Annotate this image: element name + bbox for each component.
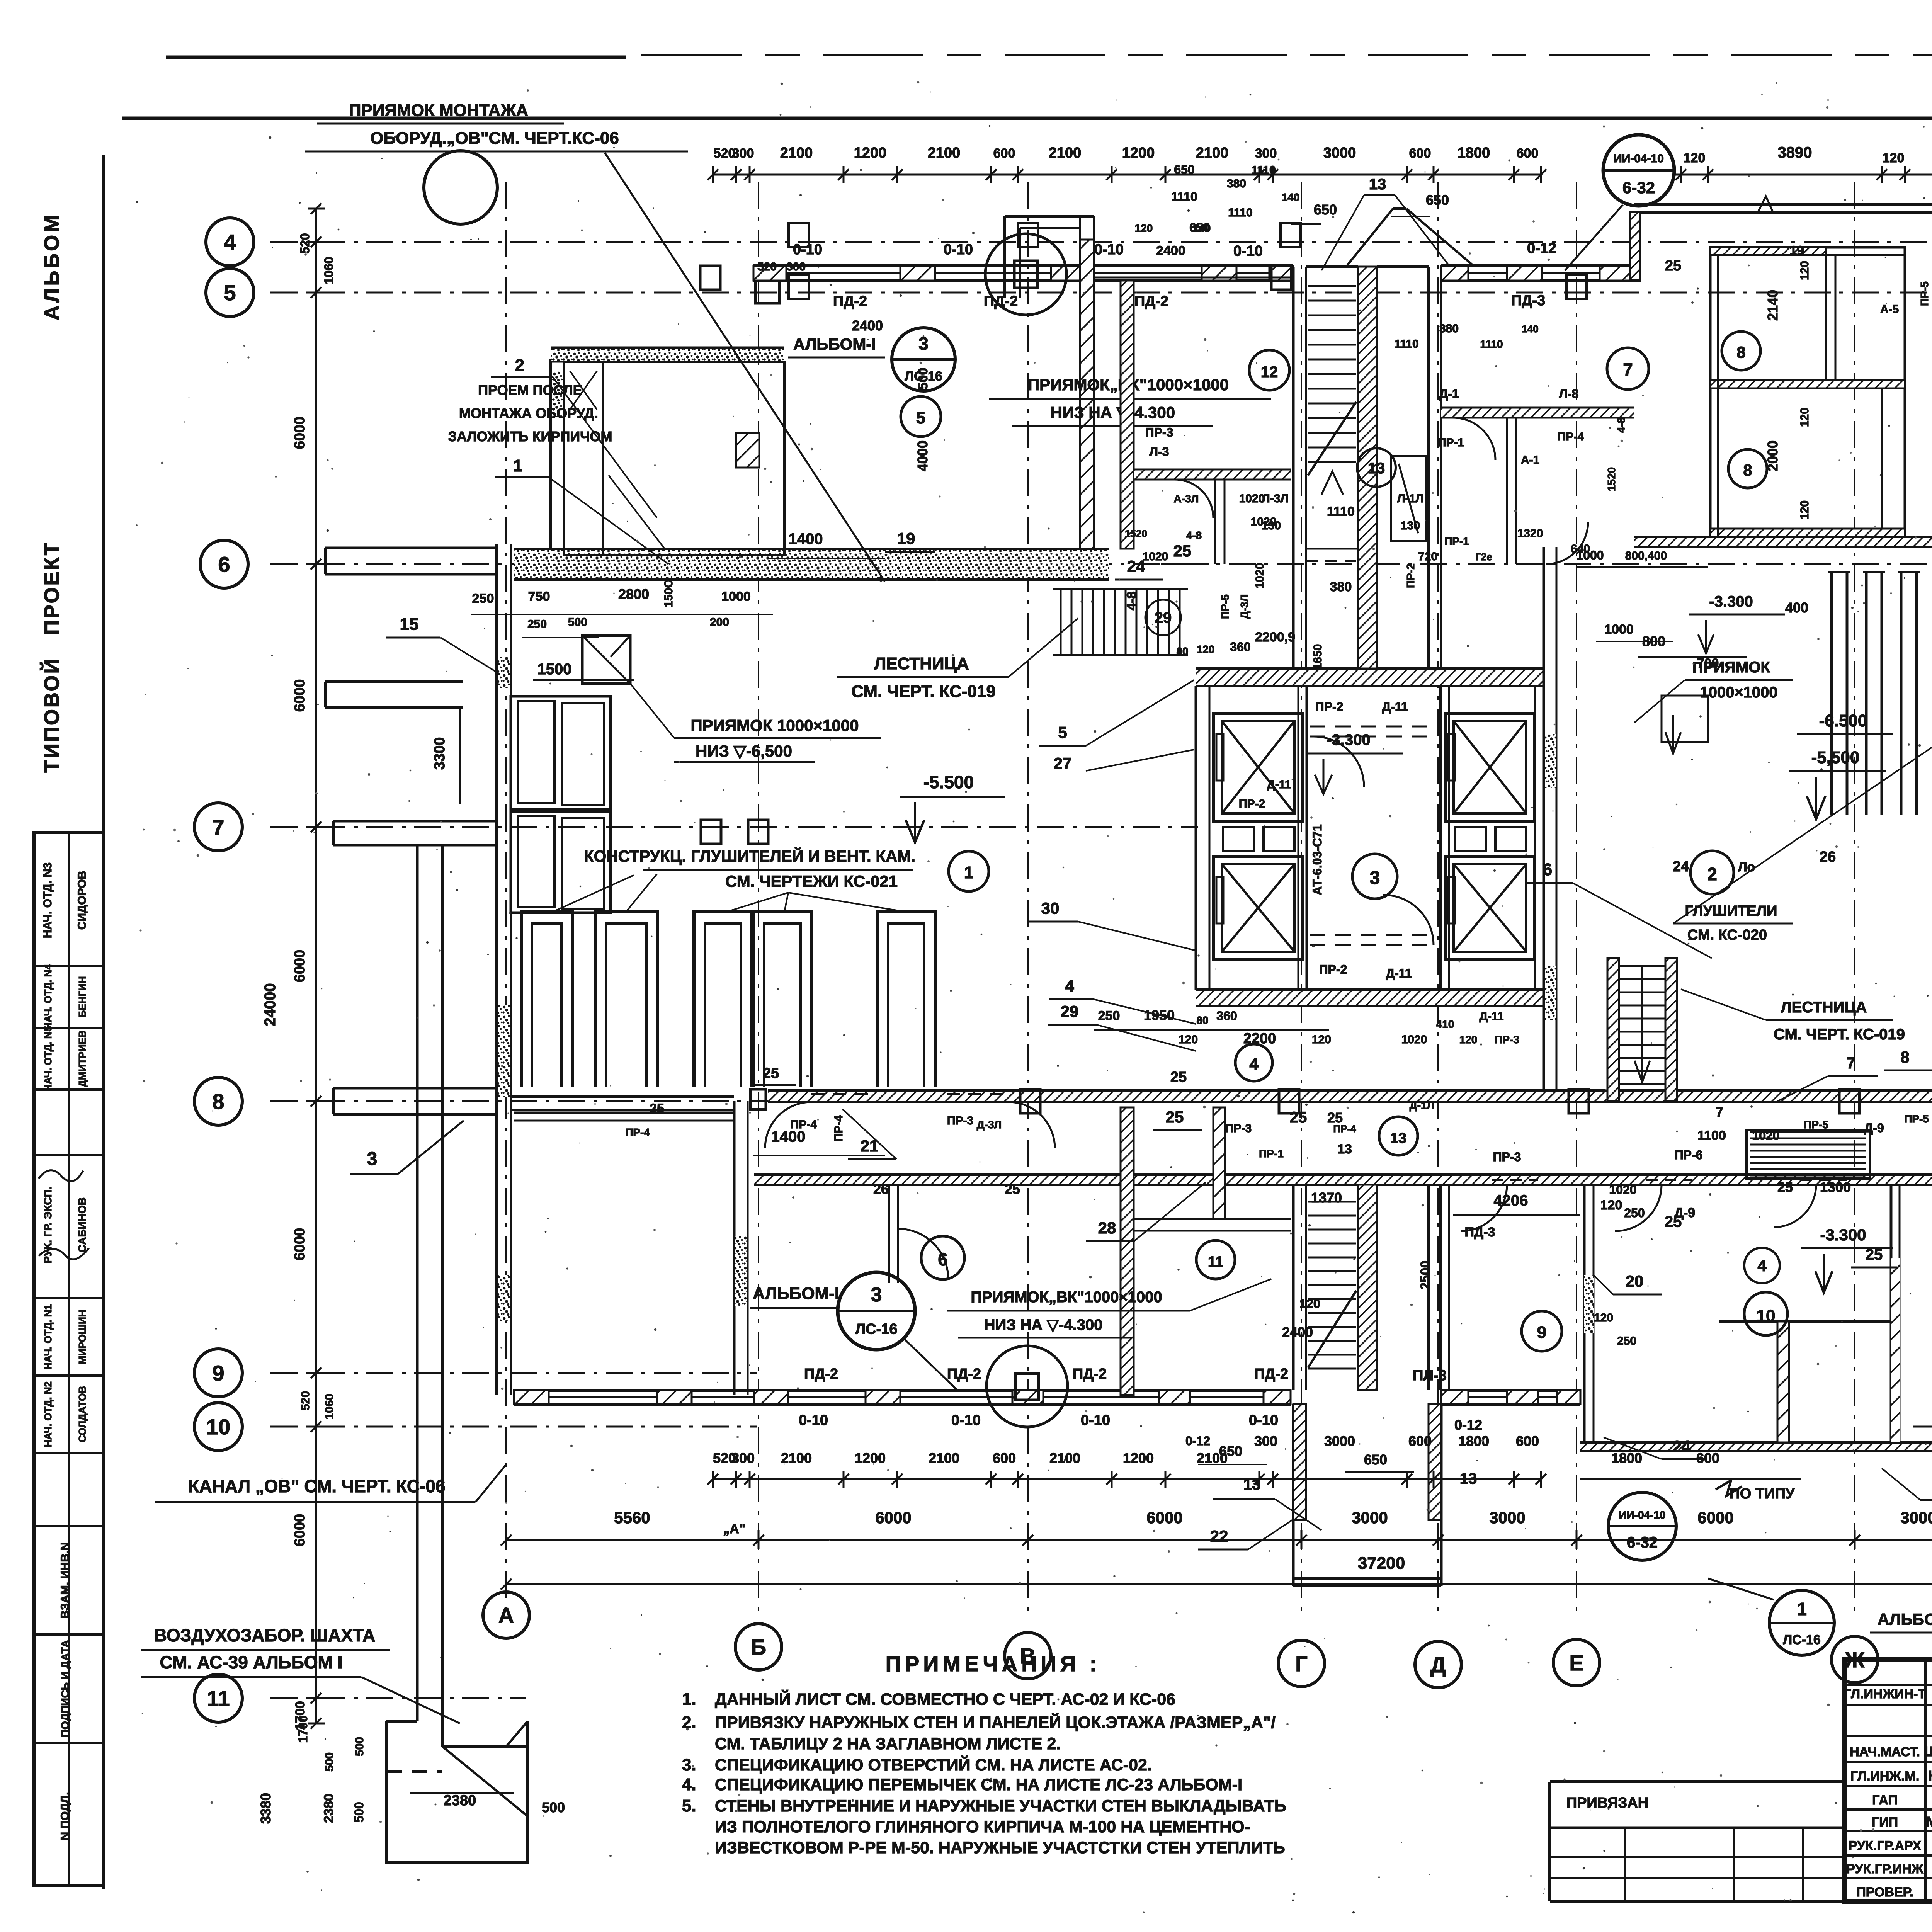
vertical axis dash-dot lines	[505, 182, 507, 1619]
room7 circle	[1607, 348, 1649, 389]
svg-text:6000: 6000	[292, 950, 308, 983]
svg-text:Ло: Ло	[1738, 860, 1755, 874]
svg-text:25: 25	[1005, 1181, 1020, 1197]
svg-text:ЛЕСТНИЦА: ЛЕСТНИЦА	[1781, 999, 1867, 1016]
south wall right block	[1580, 1442, 1932, 1451]
svg-text:4.: 4.	[682, 1775, 696, 1794]
corridor south wall	[754, 1175, 1894, 1185]
room 9 left wall	[1439, 1185, 1442, 1390]
heavy dark band axis6	[514, 549, 1109, 580]
svg-text:Е: Е	[1569, 1651, 1583, 1675]
room5 west wall	[1121, 281, 1134, 549]
upper band horizontal wall right	[1441, 408, 1634, 418]
svg-text:250: 250	[1624, 1206, 1645, 1220]
svg-text:СМ. АС-39 АЛЬБОМ I: СМ. АС-39 АЛЬБОМ I	[160, 1652, 343, 1672]
svg-text:120: 120	[1197, 643, 1215, 655]
svg-text:Д-1Л: Д-1Л	[1410, 1099, 1435, 1111]
svg-text:6000: 6000	[292, 417, 308, 449]
elevator shaft wall mid-right	[1439, 686, 1442, 990]
svg-text:8: 8	[1743, 461, 1752, 479]
svg-text:0-10: 0-10	[951, 1412, 981, 1429]
upper protrusion top wall	[1094, 264, 1293, 267]
svg-text:6000: 6000	[292, 679, 308, 712]
svg-text:3000: 3000	[1900, 1509, 1932, 1527]
svg-text:600: 600	[1408, 1433, 1432, 1449]
svg-text:2100: 2100	[781, 1450, 812, 1466]
svg-text:1520: 1520	[1125, 528, 1147, 539]
svg-text:200: 200	[710, 616, 729, 629]
svg-text:400: 400	[1785, 600, 1808, 616]
svg-text:1.: 1.	[682, 1690, 696, 1709]
svg-text:120: 120	[1179, 1033, 1198, 1046]
svg-text:РУК.ГР.ИНЖ: РУК.ГР.ИНЖ	[1846, 1862, 1923, 1876]
svg-text:120: 120	[1684, 151, 1706, 165]
upper band vertical wall x3900	[1506, 418, 1508, 564]
leaders to mufflers	[553, 875, 634, 912]
svg-text:ГАП: ГАП	[1872, 1793, 1898, 1808]
svg-text:1020: 1020	[1143, 550, 1168, 563]
svg-text:24: 24	[1673, 859, 1689, 875]
svg-text:120: 120	[1600, 1198, 1622, 1213]
svg-text:12: 12	[1261, 364, 1278, 381]
svg-text:1200: 1200	[855, 1450, 886, 1466]
svg-text:2400: 2400	[1156, 243, 1185, 258]
svg-text:650: 650	[1426, 192, 1449, 208]
svg-text:120: 120	[1299, 1297, 1320, 1311]
svg-text:24: 24	[1673, 1437, 1691, 1456]
svg-text:4-8: 4-8	[1124, 591, 1139, 610]
room13 circle lower	[1379, 1117, 1418, 1155]
svg-text:„А": „А"	[723, 1522, 745, 1536]
room16 north wall	[514, 1112, 734, 1114]
svg-text:1110: 1110	[1394, 338, 1418, 350]
svg-text:1020: 1020	[1401, 1033, 1427, 1046]
svg-text:ПР-5: ПР-5	[1904, 1113, 1929, 1125]
title block name row lines	[1844, 1684, 1932, 1686]
step wall between center and right wing	[1630, 212, 1640, 281]
core bottom hatched band	[1196, 990, 1544, 1006]
appendage east wall hatched	[1080, 240, 1094, 549]
svg-text:2: 2	[1707, 864, 1717, 884]
top dimension chain	[713, 174, 1541, 176]
svg-text:1700: 1700	[296, 1715, 310, 1743]
svg-text:520: 520	[299, 1391, 312, 1410]
svg-text:2100: 2100	[1049, 1450, 1080, 1466]
room1 muffler boxes	[521, 912, 572, 1087]
svg-text:7: 7	[1846, 1054, 1855, 1072]
svg-text:27: 27	[1054, 754, 1072, 772]
svg-text:1110: 1110	[1171, 190, 1197, 204]
svg-text:11: 11	[207, 1686, 230, 1711]
svg-text:ПД-2: ПД-2	[1134, 293, 1168, 310]
svg-text:СПЕЦИФИКАЦИЮ ПЕРЕМЫЧЕК СМ. Н: СПЕЦИФИКАЦИЮ ПЕРЕМЫЧЕК СМ. НА ЛИСТЕ ЛС-2…	[715, 1776, 1242, 1794]
shaft side slots	[1216, 734, 1223, 781]
svg-text:ПРИЯМОК МОНТАЖА: ПРИЯМОК МОНТАЖА	[349, 101, 528, 120]
elevator shaft C	[1445, 713, 1535, 821]
svg-text:600: 600	[1516, 1433, 1539, 1449]
shaft machine boxes	[1223, 827, 1254, 851]
room 10 right wall	[1890, 1185, 1893, 1442]
svg-text:6-32: 6-32	[1622, 179, 1655, 197]
svg-text:250: 250	[527, 618, 547, 631]
svg-text:ГЛ.ИНЖ.М.: ГЛ.ИНЖ.М.	[1850, 1769, 1920, 1784]
appendage inner box	[564, 362, 784, 555]
rooms8 box walls	[1710, 247, 1905, 537]
svg-text:НАЧ. ОТД. N5: НАЧ. ОТД. N5	[42, 1026, 54, 1092]
svg-text:СМ. ЧЕРТЕЖИ КС-021: СМ. ЧЕРТЕЖИ КС-021	[725, 872, 898, 890]
upper band door arcs right	[1453, 418, 1495, 460]
svg-text:ЛС-16: ЛС-16	[905, 369, 942, 384]
room2 west wall	[1543, 547, 1545, 1090]
elevator shaft A	[1213, 713, 1303, 821]
svg-text:3380: 3380	[258, 1793, 274, 1824]
upper band vertical wall left	[1214, 480, 1216, 564]
svg-text:НАЧ. ОТД. N4: НАЧ. ОТД. N4	[42, 964, 54, 1029]
north wall right of stair	[1441, 264, 1634, 267]
svg-text:-3.300: -3.300	[1709, 593, 1753, 610]
svg-text:25: 25	[1777, 1179, 1793, 1195]
svg-text:1650: 1650	[1311, 644, 1324, 670]
svg-text:1110: 1110	[1480, 338, 1503, 350]
svg-text:120: 120	[1883, 151, 1905, 165]
svg-text:1800: 1800	[1611, 1450, 1642, 1466]
svg-text:1000×1000: 1000×1000	[1700, 684, 1777, 701]
svg-text:ЛЕСТНИЦА: ЛЕСТНИЦА	[874, 654, 969, 673]
svg-text:7: 7	[1716, 1104, 1723, 1120]
svg-text:500: 500	[352, 1802, 366, 1822]
top right dimension chain	[1673, 174, 1932, 176]
svg-text:Л-1Л: Л-1Л	[1397, 492, 1424, 505]
svg-text:ИИ-04-10: ИИ-04-10	[1619, 1509, 1665, 1521]
bottom axis letter circles	[483, 1592, 529, 1638]
svg-text:ПРОВЕР.: ПРОВЕР.	[1856, 1885, 1913, 1900]
svg-text:1100: 1100	[1697, 1128, 1726, 1143]
elevator shaft wall right	[1543, 686, 1545, 990]
svg-text:750: 750	[528, 589, 550, 604]
svg-text:2100: 2100	[1197, 1450, 1228, 1466]
room12 circle	[1249, 350, 1289, 390]
svg-text:Д-9: Д-9	[1674, 1206, 1695, 1220]
svg-text:ПД-3: ПД-3	[1511, 293, 1545, 309]
svg-text:650: 650	[1364, 1452, 1387, 1468]
svg-text:2380: 2380	[321, 1794, 336, 1823]
svg-text:4: 4	[1065, 977, 1074, 995]
sidebar stamp table grid	[34, 833, 104, 1886]
svg-text:300: 300	[732, 146, 754, 161]
svg-text:КОНСТРУКЦ. ГЛУШИТЕЛЕЙ И ВЕНТ: КОНСТРУКЦ. ГЛУШИТЕЛЕЙ И ВЕНТ. КАМ.	[584, 847, 915, 865]
south wall column detail circle	[986, 1346, 1068, 1427]
svg-text:520: 520	[298, 233, 312, 253]
svg-text:5.: 5.	[682, 1796, 696, 1815]
svg-text:Д-3Л: Д-3Л	[1238, 594, 1250, 619]
svg-text:7: 7	[212, 815, 224, 839]
svg-text:СПЕЦИФИКАЦИЮ ОТВЕРСТИЙ СМ.: СПЕЦИФИКАЦИЮ ОТВЕРСТИЙ СМ. НА ЛИСТЕ АС-0…	[715, 1755, 1152, 1774]
svg-text:НАЧ. ОТД. N1: НАЧ. ОТД. N1	[42, 1304, 54, 1370]
svg-text:0-10: 0-10	[1081, 1412, 1110, 1429]
svg-text:НАЧ. ОТД. N2: НАЧ. ОТД. N2	[42, 1381, 54, 1447]
svg-text:ПР-5: ПР-5	[1918, 281, 1930, 306]
core corridor door dashes top	[1310, 726, 1437, 728]
svg-text:N ПОДЛ.: N ПОДЛ.	[59, 1792, 71, 1840]
core top hatched band	[1196, 668, 1544, 686]
circle 4 lower lobby	[1235, 1044, 1272, 1081]
svg-text:1060: 1060	[323, 1394, 336, 1420]
room16 inner wall	[888, 1185, 890, 1283]
west wall lower-left block	[733, 1101, 736, 1395]
svg-text:СОЛДАТОВ: СОЛДАТОВ	[77, 1386, 88, 1442]
svg-text:26: 26	[1820, 849, 1836, 865]
svg-text:2100: 2100	[929, 1450, 959, 1466]
svg-text:АЛЬБОМ: АЛЬБОМ	[40, 213, 63, 320]
svg-text:ПОДПИСЬ И ДАТА: ПОДПИСЬ И ДАТА	[59, 1640, 71, 1737]
left sidebar frame line	[102, 155, 105, 1889]
svg-text:1200: 1200	[1123, 1450, 1154, 1466]
svg-text:3300: 3300	[432, 737, 448, 770]
svg-text:120: 120	[1798, 500, 1811, 520]
bottom small chain right	[1580, 1478, 1801, 1480]
axis7 left protruding bar	[333, 820, 495, 823]
svg-text:3000: 3000	[1352, 1509, 1388, 1527]
scan speckle noise	[1305, 1104, 1308, 1106]
svg-text:КРИЧЕВСКИЦ: КРИЧЕВСКИЦ	[1928, 1768, 1932, 1784]
svg-text:24000: 24000	[262, 983, 279, 1026]
svg-text:6000: 6000	[1146, 1509, 1182, 1527]
svg-text:6: 6	[218, 552, 230, 577]
svg-text:1110: 1110	[1251, 164, 1276, 177]
svg-text:6-32: 6-32	[1627, 1534, 1658, 1551]
svg-text:-5,500: -5,500	[1811, 748, 1860, 767]
svg-text:2100: 2100	[780, 145, 813, 161]
south window band right part	[1441, 1389, 1580, 1392]
svg-text:ПР-3: ПР-3	[1145, 425, 1173, 439]
svg-text:ПРИЯМОК„ВК"1000×1000: ПРИЯМОК„ВК"1000×1000	[971, 1289, 1162, 1306]
core circle 3	[1352, 854, 1397, 899]
svg-text:НИЗ НА ▽-4.300: НИЗ НА ▽-4.300	[984, 1316, 1103, 1333]
svg-text:Л-3: Л-3	[1150, 445, 1169, 459]
svg-text:13: 13	[1369, 176, 1386, 193]
svg-text:1020: 1020	[1251, 515, 1277, 528]
svg-text:ПР-2: ПР-2	[1239, 798, 1265, 810]
left axis circles 4-11	[206, 218, 254, 266]
south bay under stair	[1292, 1404, 1295, 1586]
svg-text:28: 28	[1098, 1219, 1116, 1237]
right wing north wall	[1634, 203, 1932, 206]
svg-text:4: 4	[224, 230, 236, 254]
svg-text:4-8: 4-8	[1186, 529, 1202, 541]
svg-text:520: 520	[757, 260, 777, 273]
sidebar signatures	[39, 1170, 83, 1181]
svg-text:3890: 3890	[1778, 144, 1812, 161]
dashed lintels rooms 9-10	[1492, 1179, 1538, 1181]
svg-text:0-12: 0-12	[1527, 240, 1556, 257]
svg-text:ПР-4: ПР-4	[791, 1118, 817, 1131]
svg-text:8: 8	[212, 1089, 224, 1114]
svg-text:МИРОШИН: МИРОШИН	[77, 1310, 88, 1364]
rooms8 inner door lines	[1825, 255, 1827, 380]
svg-text:2100: 2100	[1196, 145, 1229, 161]
svg-text:0-10: 0-10	[944, 241, 973, 258]
svg-text:360: 360	[1216, 1009, 1237, 1023]
svg-text:13: 13	[1390, 1130, 1406, 1146]
room5 circle	[901, 396, 941, 437]
svg-text:Л-3Л: Л-3Л	[1262, 492, 1289, 505]
shaft channel vertical lines	[416, 846, 419, 1721]
svg-text:25: 25	[763, 1065, 779, 1082]
room9 circle	[1522, 1311, 1562, 1351]
svg-text:25: 25	[1173, 542, 1192, 560]
svg-text:25: 25	[1290, 1109, 1307, 1126]
svg-text:ИЗ ПОЛНОТЕЛОГО ГЛИНЯНОГО КИР: ИЗ ПОЛНОТЕЛОГО ГЛИНЯНОГО КИРПИЧА М-100 Н…	[715, 1818, 1250, 1836]
rooms 9-10 divider	[1583, 1185, 1586, 1442]
svg-text:-5.500: -5.500	[923, 772, 974, 792]
svg-text:ПРИЯМОК 1000×1000: ПРИЯМОК 1000×1000	[691, 716, 859, 735]
svg-text:СИДОРОВ: СИДОРОВ	[76, 871, 88, 930]
room1 circle 1	[949, 851, 989, 891]
svg-text:500: 500	[568, 616, 587, 629]
svg-text:2100: 2100	[1049, 145, 1082, 161]
svg-text:120: 120	[1798, 408, 1811, 427]
svg-text:ПРИВЯЗАН: ПРИВЯЗАН	[1566, 1795, 1648, 1811]
svg-text:25: 25	[1170, 1069, 1187, 1085]
elevator shaft D	[1445, 856, 1535, 959]
svg-text:2400: 2400	[852, 318, 883, 333]
svg-text:1800: 1800	[1458, 145, 1490, 161]
west wall left wing	[495, 544, 498, 1395]
svg-text:9: 9	[1537, 1323, 1546, 1342]
svg-text:6000: 6000	[875, 1509, 911, 1527]
svg-text:20: 20	[1626, 1272, 1644, 1290]
svg-text:25: 25	[650, 1101, 664, 1116]
page top broken trim line	[166, 56, 626, 59]
svg-text:720: 720	[1418, 550, 1437, 563]
svg-text:120: 120	[1459, 1034, 1478, 1046]
svg-text:1520: 1520	[1605, 467, 1617, 491]
svg-text:СМ. ЧЕРТ. КС-019: СМ. ЧЕРТ. КС-019	[1774, 1026, 1905, 1043]
svg-text:19: 19	[897, 529, 915, 548]
svg-text:ПД-2: ПД-2	[1254, 1366, 1288, 1382]
svg-text:1: 1	[964, 863, 973, 882]
svg-text:ПР-5: ПР-5	[1804, 1119, 1828, 1131]
svg-text:1: 1	[513, 456, 522, 475]
stair mid landing lines	[1306, 548, 1358, 550]
svg-text:1200: 1200	[1122, 145, 1155, 161]
privyazan box	[1550, 1780, 1844, 1783]
svg-text:-3.300: -3.300	[1820, 1226, 1866, 1244]
detail circle top left x1260	[424, 151, 497, 224]
axis7 columns	[701, 820, 721, 844]
south window band lower-center	[514, 1389, 1291, 1392]
room2 muffler bars	[1832, 572, 1847, 815]
svg-text:ПР-2: ПР-2	[1315, 700, 1344, 714]
svg-text:ЛС-16: ЛС-16	[855, 1321, 897, 1337]
svg-text:А-5: А-5	[1880, 303, 1899, 316]
svg-text:640: 640	[1571, 543, 1590, 555]
svg-text:Д-11: Д-11	[1479, 1010, 1503, 1023]
svg-text:Г2е: Г2е	[1475, 551, 1492, 563]
svg-text:ПР-5: ПР-5	[1219, 594, 1231, 619]
svg-text:8: 8	[1736, 343, 1745, 361]
right stair walls	[1607, 958, 1619, 1101]
stair tower lower treads	[1308, 1201, 1356, 1203]
svg-text:-6.500: -6.500	[1819, 711, 1867, 730]
svg-text:5560: 5560	[614, 1509, 650, 1527]
svg-text:120: 120	[1594, 1311, 1613, 1324]
shaft outline	[386, 1721, 527, 1862]
svg-text:Д-3Л: Д-3Л	[977, 1119, 1002, 1131]
horizontal axis dash-dot lines	[270, 241, 1932, 243]
title block outer	[1844, 1659, 1932, 1901]
svg-text:26: 26	[873, 1181, 889, 1197]
core door arcs	[1314, 736, 1364, 787]
svg-text:ПР-6: ПР-6	[1675, 1148, 1703, 1162]
corridor door arcs left	[765, 1102, 811, 1148]
svg-text:3: 3	[1370, 868, 1380, 888]
svg-text:300: 300	[786, 260, 806, 273]
svg-text:0-10: 0-10	[1249, 1412, 1278, 1429]
svg-text:ДАННЫЙ ЛИСТ СМ. СОВМЕСТНО С: ДАННЫЙ ЛИСТ СМ. СОВМЕСТНО С ЧЕРТ. АС-02 …	[715, 1690, 1175, 1709]
svg-text:3: 3	[367, 1149, 378, 1169]
svg-text:3.: 3.	[682, 1755, 696, 1774]
svg-text:ПР-3: ПР-3	[947, 1114, 973, 1127]
rooms9-10 door arcs	[1461, 1185, 1507, 1231]
svg-text:КАНАЛ „ОВ" СМ. ЧЕРТ. КС-06: КАНАЛ „ОВ" СМ. ЧЕРТ. КС-06	[188, 1476, 445, 1496]
room2 circle	[1690, 851, 1734, 894]
svg-text:300: 300	[1254, 1433, 1277, 1449]
svg-text:АТ-6.03-С71: АТ-6.03-С71	[1310, 824, 1324, 895]
svg-text:1020: 1020	[1609, 1183, 1636, 1197]
room 20 walls	[1719, 1320, 1891, 1323]
svg-text:9: 9	[212, 1361, 224, 1385]
rooms 11-13 walls	[1121, 1107, 1134, 1395]
horizontal radiator below corridor	[1750, 1131, 1866, 1133]
stair tower upper walls	[1292, 267, 1295, 668]
svg-text:380: 380	[1330, 580, 1352, 594]
svg-text:11: 11	[1208, 1254, 1223, 1270]
svg-text:САБИНОВ: САБИНОВ	[76, 1197, 88, 1252]
room1 window box upper	[511, 696, 611, 809]
svg-text:ДМИТРИЕВ: ДМИТРИЕВ	[77, 1031, 88, 1087]
svg-text:3000: 3000	[1323, 145, 1356, 161]
svg-text:360: 360	[1230, 640, 1250, 654]
upper band horizontal wall left	[1134, 469, 1291, 480]
priamok VK ladder symbol	[1053, 588, 1188, 590]
svg-text:ВОЗДУХОЗАБОР. ШАХТА: ВОЗДУХОЗАБОР. ШАХТА	[154, 1625, 376, 1645]
svg-text:4: 4	[1249, 1055, 1259, 1073]
north wall column B detail circle	[985, 234, 1066, 315]
svg-text:ПРИЯМОК: ПРИЯМОК	[1692, 659, 1770, 676]
svg-text:22: 22	[1210, 1527, 1228, 1545]
svg-text:ПД-2: ПД-2	[947, 1366, 981, 1382]
svg-text:2800: 2800	[618, 586, 649, 602]
svg-text:1060: 1060	[322, 257, 336, 284]
svg-text:ПД-2: ПД-2	[804, 1366, 838, 1382]
svg-text:СМ. КС-020: СМ. КС-020	[1687, 927, 1767, 943]
svg-text:1200: 1200	[854, 145, 887, 161]
svg-text:Л-8: Л-8	[1559, 387, 1579, 401]
svg-text:800,400: 800,400	[1625, 549, 1667, 562]
wall stub above core left	[1079, 281, 1081, 549]
svg-text:Г: Г	[1295, 1651, 1308, 1676]
svg-text:2.: 2.	[682, 1713, 696, 1732]
svg-text:650: 650	[1189, 221, 1210, 235]
bottom totals dimension row	[506, 1539, 1932, 1541]
svg-text:120: 120	[1798, 261, 1811, 280]
svg-text:ПР-4: ПР-4	[1558, 430, 1584, 443]
svg-text:ОБОРУД.„ОВ"СМ. ЧЕРТ.КС-06: ОБОРУД.„ОВ"СМ. ЧЕРТ.КС-06	[370, 129, 619, 148]
svg-text:380: 380	[1439, 322, 1459, 335]
stair canopy triangle	[1347, 209, 1393, 265]
svg-text:НАЧ. ОТД. N3: НАЧ. ОТД. N3	[41, 862, 54, 938]
